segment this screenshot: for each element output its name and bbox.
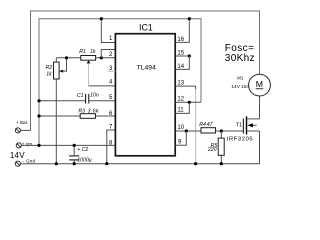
node C1 rail junction — [37, 99, 40, 102]
motor M1 — [249, 74, 271, 96]
resistor R5 — [218, 131, 224, 164]
node C2 top junction — [73, 144, 76, 147]
node rail/pin1 drop — [100, 17, 103, 20]
wire +Bat rail (outer: left, top, right to motor) — [31, 11, 260, 130]
svg-text:R1: R1 — [79, 49, 86, 55]
wire pin2 jumper up — [101, 50, 115, 58]
node R2 ground junction — [55, 162, 58, 165]
svg-text:1k: 1k — [90, 49, 96, 55]
svg-text:TL494: TL494 — [137, 65, 156, 72]
node pin12 junction — [188, 101, 191, 104]
resistor R2 — [54, 58, 67, 164]
svg-text:1000µ: 1000µ — [77, 157, 92, 163]
svg-text:-- Gnd: -- Gnd — [21, 159, 35, 164]
wire R1 right to pin2 junction — [96, 57, 116, 59]
wire main divider line — [56, 57, 81, 59]
svg-text:30Khz: 30Khz — [225, 53, 255, 64]
svg-text:+ Bat.: + Bat. — [16, 120, 28, 125]
node C2 ground junction — [73, 162, 76, 165]
node pin2 junction — [100, 56, 103, 59]
capacitor C2 — [69, 145, 79, 163]
node pin13 ground junction — [194, 162, 197, 165]
wire pin 15 stub — [175, 55, 189, 57]
wire rail drop to pin1 — [101, 19, 115, 43]
wire R1 wiper to pin 4 — [89, 85, 116, 87]
svg-text:14: 14 — [177, 64, 184, 70]
wire pin15 to pin14 — [175, 56, 189, 69]
node VCC rail / +Ign junction — [37, 144, 40, 147]
svg-text:C1: C1 — [77, 93, 84, 99]
terminal +Bat — [15, 128, 20, 133]
node pin16 rail junction — [188, 17, 191, 20]
wire pin 9 to pin 10 — [175, 131, 186, 145]
svg-text:M: M — [256, 79, 263, 89]
wire pin 3 stub (n.c.) — [108, 70, 115, 72]
svg-text:12: 12 — [177, 97, 184, 103]
op-amp U1 (IC body TL494) — [115, 34, 175, 156]
svg-text:3.6k: 3.6k — [88, 108, 99, 114]
svg-text:1k: 1k — [46, 72, 52, 78]
terminal +Ign — [16, 143, 21, 148]
wire pin 16 to VCC rail — [175, 19, 189, 43]
wire pin 12 to rail drop — [175, 101, 201, 103]
svg-text:11: 11 — [177, 107, 184, 113]
wire ground rail — [20, 131, 259, 164]
resistor R3 — [39, 114, 115, 119]
svg-text:220: 220 — [207, 147, 217, 153]
svg-text:R2: R2 — [46, 65, 53, 71]
terminal Gnd — [15, 161, 20, 166]
svg-text:IC1: IC1 — [139, 23, 153, 33]
node pin7 ground junction — [105, 162, 108, 165]
wire pin 10 to R4 — [175, 130, 201, 132]
node pin15 junction — [188, 54, 191, 57]
wire +Bat terminal to left rail — [21, 129, 31, 131]
svg-text:10n: 10n — [90, 93, 99, 99]
svg-text:14V 15A: 14V 15A — [231, 84, 250, 89]
capacitor C1 — [39, 94, 115, 104]
potentiometer R1 — [81, 56, 96, 86]
resistor R4 — [201, 128, 243, 133]
svg-text:M1: M1 — [237, 75, 244, 80]
svg-text:R4: R4 — [199, 122, 206, 128]
transistor T1 (IRF3205 MOSFET) — [243, 96, 259, 135]
svg-text:10: 10 — [177, 125, 184, 131]
svg-text:+ C2: + C2 — [77, 147, 88, 153]
wire +Ign line to pin 8 — [21, 144, 115, 146]
node R5 ground junction — [220, 162, 223, 165]
node R3 rail junction — [37, 114, 40, 117]
wire pin 13 to ground — [175, 86, 195, 89]
node R2 wiper tie — [65, 56, 68, 59]
svg-text:R3: R3 — [78, 108, 85, 114]
svg-text:IRF3205: IRF3205 — [227, 137, 253, 143]
svg-text:T1: T1 — [236, 123, 243, 129]
wire pin 11 to pin 12 — [175, 102, 189, 113]
node R4/R5/gate junction — [220, 129, 223, 132]
node pin10/pin9 junction — [185, 129, 188, 132]
wire pin 7 to ground — [107, 130, 116, 164]
wire VCC inner rail (left drop, top, right drop to pin 12) — [39, 19, 201, 146]
